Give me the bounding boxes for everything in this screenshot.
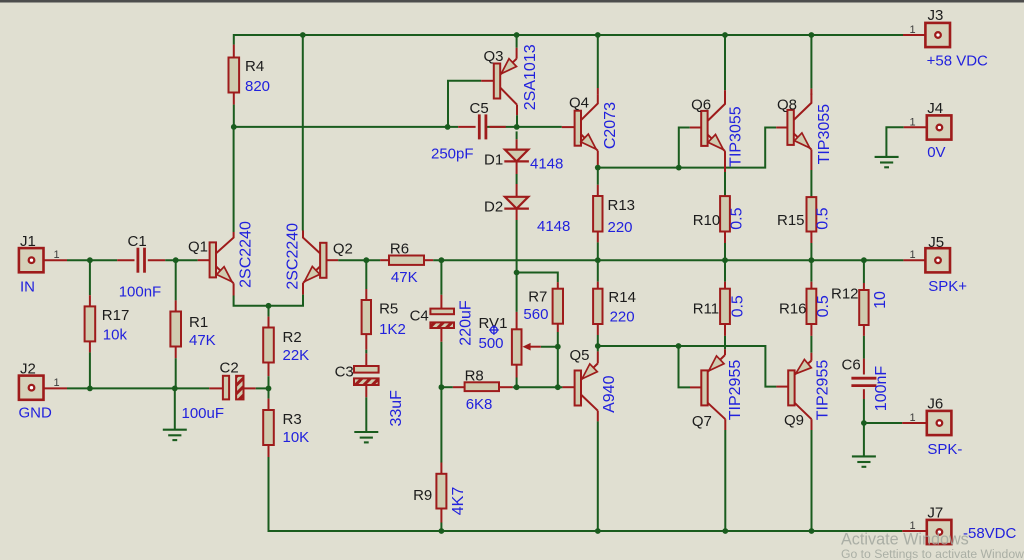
- transistor Q5 emitter arrow: [582, 364, 597, 379]
- svg-text:R3: R3: [283, 411, 302, 428]
- capacitor C3 (electrolytic): [354, 366, 379, 385]
- node D2-R7-RV1 bias junction: [514, 270, 520, 276]
- svg-text:1: 1: [53, 377, 59, 389]
- svg-text:R17: R17: [102, 307, 130, 324]
- transistor Q1 collector diag: [216, 232, 234, 253]
- capacitor C5: [479, 114, 486, 139]
- wire D1 top green: [516, 131, 518, 139]
- wire R4 bottom lead: [233, 93, 235, 105]
- svg-text:6K8: 6K8: [466, 396, 493, 413]
- svg-text:C1: C1: [128, 233, 147, 250]
- wire R10 to output rail: [724, 243, 726, 260]
- wire C3 bottom lead: [365, 386, 367, 398]
- node Q6 base tap junction: [676, 165, 682, 171]
- wire R16 top lead: [810, 282, 812, 289]
- wire R11 bottom green: [724, 336, 726, 349]
- wire R17 top lead: [89, 295, 91, 306]
- wire R9 top lead: [440, 463, 442, 474]
- svg-text:R14: R14: [608, 289, 636, 306]
- node R15-R16 output junction: [809, 257, 815, 263]
- resistor R6: [389, 256, 424, 265]
- wire Q4 emitter lead: [597, 151, 599, 168]
- node Q5 collector rail junction: [595, 528, 601, 534]
- wire Q5 emitter green: [597, 346, 599, 351]
- node Q2 collector on top rail: [300, 32, 306, 38]
- node Q7 collector rail junction: [722, 528, 728, 534]
- connector J7: [927, 520, 952, 544]
- node emitter tail junction: [266, 303, 272, 309]
- resistor R10: [720, 196, 730, 231]
- wire J6 node to ground: [863, 423, 865, 456]
- svg-text:2SC2240: 2SC2240: [284, 223, 301, 290]
- wire R5 to C3: [365, 350, 367, 354]
- wire R5 top: [365, 260, 367, 289]
- node J2-R17 ground junction: [87, 386, 93, 392]
- wire Q5 collector green: [597, 421, 599, 531]
- transistor Q6 body: [701, 111, 707, 146]
- transistor Q4 collector diag: [581, 94, 598, 120]
- resistor R9: [436, 474, 446, 509]
- node Q3 base-loop junction: [445, 124, 451, 130]
- svg-text:R8: R8: [465, 367, 484, 384]
- transistor Q8 emitter diag: [794, 134, 812, 150]
- wire Q2 emitter lead: [302, 283, 304, 295]
- wire R12 bottom lead: [863, 325, 865, 336]
- wire R8 to Q5 base: [513, 386, 563, 388]
- svg-text:TIP3055: TIP3055: [728, 106, 745, 167]
- wire R1 junction to ground: [174, 388, 176, 429]
- node Q7 base tap junction: [676, 343, 682, 349]
- wire RV1 top green: [516, 273, 518, 312]
- potentiometer RV1 wiper arrow: [523, 343, 531, 351]
- potentiometer RV1 crosshair marker: [489, 325, 499, 335]
- potentiometer RV1 body: [512, 329, 522, 364]
- svg-text:A940: A940: [601, 375, 618, 412]
- transistor Q5 body: [575, 371, 581, 406]
- svg-text:R4: R4: [245, 58, 264, 75]
- wire J5 pin: [903, 259, 925, 261]
- wire driver line: [598, 128, 776, 168]
- wire Q6 emitter lead: [724, 151, 726, 172]
- wire Q3 emitter top green: [516, 35, 518, 48]
- wire R17 bottom: [89, 352, 91, 388]
- transistor Q7 emitter diag: [708, 355, 725, 372]
- node R5 on base line: [363, 257, 369, 263]
- node R4 bottom junction: [231, 124, 237, 130]
- resistor R17: [85, 306, 96, 341]
- wire R3 to bottom rail: [269, 457, 903, 531]
- wire J1 pin: [35, 259, 67, 261]
- wire J2 to R17: [67, 387, 209, 389]
- transistor Q4 emitter arrow: [581, 134, 596, 149]
- wire Q9 emitter lead: [810, 353, 812, 361]
- wire R16 top green: [810, 260, 812, 282]
- resistor R8: [465, 382, 499, 391]
- node R8 left junction: [439, 384, 445, 390]
- wire J2 pin: [35, 387, 67, 389]
- wire Q3 collector green: [516, 115, 518, 127]
- capacitor C2 (electrolytic): [223, 376, 244, 400]
- transistor Q1 emitter diag: [216, 266, 234, 283]
- wire Q8 base stub: [776, 127, 787, 129]
- svg-text:220uF: 220uF: [458, 300, 475, 346]
- svg-text:22K: 22K: [283, 347, 310, 364]
- node R10-R11 output junction: [722, 257, 728, 263]
- svg-text:D1: D1: [484, 151, 503, 168]
- node RV1 bottom junction: [514, 384, 520, 390]
- svg-text:R6: R6: [390, 241, 409, 258]
- wire Q7 collector green: [724, 430, 726, 531]
- svg-text:R1: R1: [189, 314, 208, 331]
- wire R6 lead right: [424, 259, 433, 261]
- capacitor C4 (electrolytic): [430, 309, 454, 328]
- node R6-C4 junction: [439, 257, 445, 263]
- node R1 ground junction: [172, 386, 178, 392]
- svg-text:R2: R2: [283, 329, 302, 346]
- wire R10 bottom lead: [724, 232, 726, 244]
- node Q4 emitter drive junction: [595, 165, 601, 171]
- wire R13 top green: [597, 168, 599, 185]
- transistor Q1 emitter arrow: [217, 267, 232, 282]
- transistor Q6 emitter arrow: [708, 135, 723, 150]
- svg-text:Q9: Q9: [784, 412, 804, 429]
- capacitor C1: [138, 248, 145, 273]
- node C5-Q3-D1 junction: [514, 124, 520, 130]
- capacitor C6: [851, 378, 876, 385]
- wire R7 to wiper node: [557, 332, 559, 387]
- svg-text:Q1: Q1: [188, 239, 208, 256]
- svg-text:Activate Windows: Activate Windows: [841, 531, 969, 549]
- transistor Q6 collector diag: [708, 95, 725, 121]
- wire Q4 collector lead: [597, 88, 599, 94]
- wire J7 pin: [902, 530, 927, 532]
- svg-text:0.5: 0.5: [815, 295, 832, 317]
- transistor Q8 body: [787, 110, 793, 145]
- wire wiper lead: [529, 346, 541, 348]
- wire Q5 emitter lead: [597, 351, 599, 363]
- wire C6 bottom lead: [863, 389, 865, 399]
- svg-text:Q3: Q3: [484, 48, 504, 65]
- wire R14 top green: [597, 260, 599, 282]
- svg-text:500: 500: [479, 335, 504, 352]
- wire J6 pin: [902, 422, 927, 424]
- wire bus from R4 to C5: [234, 126, 458, 128]
- svg-text:33uF: 33uF: [388, 390, 405, 427]
- svg-text:100nF: 100nF: [119, 284, 162, 301]
- wire bus C5 to Q4 base: [487, 126, 562, 128]
- svg-text:100uF: 100uF: [182, 405, 225, 422]
- wire D1-D2 link: [516, 161, 518, 196]
- node Q4 collector on top rail: [595, 32, 601, 38]
- transistor Q8 collector diag: [794, 94, 812, 120]
- wire Q6 base tap: [679, 128, 690, 168]
- svg-text:D2: D2: [484, 199, 503, 216]
- wire R15 to output rail: [810, 243, 812, 260]
- node Q8 collector on top rail: [809, 32, 815, 38]
- wire R14 bottom lead: [597, 324, 599, 335]
- resistor R15: [807, 197, 817, 231]
- wire R17 bottom lead: [89, 341, 91, 352]
- wire Q1 emitter to tail node: [234, 296, 269, 306]
- transistor Q2 body: [320, 243, 326, 278]
- diode D1: [504, 150, 529, 162]
- wire R3 top lead: [268, 399, 270, 410]
- node R14-Q5 emitter junction: [595, 343, 601, 349]
- wire C1 lead right: [148, 259, 165, 261]
- node R9 bottom rail junction: [439, 528, 445, 534]
- wire R7 bottom lead: [557, 324, 559, 332]
- wire R14 top lead: [597, 282, 599, 289]
- transistor Q5 emitter diag: [581, 363, 598, 379]
- wire C5 lead right: [490, 126, 506, 128]
- wire R10 top green: [724, 172, 726, 196]
- svg-text:R10: R10: [693, 212, 721, 229]
- wire R5 bottom lead: [365, 334, 367, 350]
- wire C6 to J6 node: [863, 399, 865, 423]
- wire R7 top lead: [557, 282, 559, 289]
- svg-text:C6: C6: [842, 357, 861, 374]
- wire Q7 base tap: [679, 346, 691, 387]
- wire R4 top lead: [233, 45, 235, 58]
- wire Q2 emitter to tail node: [269, 295, 304, 306]
- wire R8 left green: [441, 386, 452, 388]
- svg-text:C3: C3: [335, 363, 354, 380]
- ground under C3: [354, 432, 378, 442]
- wire Q8 collector lead: [810, 89, 812, 95]
- transistor Q9 emitter arrow: [796, 359, 812, 373]
- resistor R1: [170, 312, 181, 347]
- node C1-R1 junction: [173, 257, 179, 263]
- connector J5: [925, 248, 950, 272]
- svg-text:GND: GND: [19, 404, 53, 421]
- wire Q8 emitter lead: [810, 150, 812, 171]
- wire RV1 bottom lead: [516, 365, 518, 378]
- svg-text:220: 220: [610, 309, 635, 326]
- wire Q7 emitter lead: [724, 349, 726, 355]
- resistor R11: [720, 289, 730, 324]
- wire Q4 collector green: [597, 35, 599, 88]
- wire R17 top: [89, 260, 91, 295]
- wire Q6 collector lead: [724, 90, 726, 96]
- wire R15 bottom lead: [810, 232, 812, 244]
- ground at J4: [875, 157, 899, 167]
- transistor Q1 body: [210, 242, 216, 277]
- resistor R4: [229, 58, 240, 93]
- node R7-Q5 base junction: [555, 384, 561, 390]
- svg-text:1K2: 1K2: [379, 321, 406, 338]
- wire R12 top lead: [863, 283, 865, 290]
- wire Q5 base stub: [562, 386, 574, 388]
- svg-text:Q6: Q6: [691, 96, 711, 113]
- svg-text:R16: R16: [779, 301, 807, 318]
- svg-text:R12: R12: [831, 286, 859, 303]
- svg-text:0.5: 0.5: [729, 295, 746, 317]
- wire R2 top lead: [268, 317, 270, 328]
- svg-text:1: 1: [53, 249, 59, 261]
- wire Q3 emitter lead: [516, 48, 518, 59]
- wire Q6 collector green: [724, 35, 726, 90]
- wire R1 top: [175, 260, 177, 300]
- resistor R5: [362, 300, 371, 334]
- svg-text:1: 1: [909, 412, 915, 424]
- wire RV1 top lead: [516, 312, 518, 329]
- wire J4 ground link: [886, 127, 903, 156]
- svg-text:C2: C2: [220, 359, 239, 376]
- svg-text:J4: J4: [927, 100, 943, 117]
- resistor R14: [593, 289, 602, 324]
- node C2-R2-R3 junction: [266, 386, 272, 392]
- connector J3: [925, 23, 950, 47]
- wire wiper green: [541, 346, 558, 348]
- transistor Q2 emitter diag: [303, 266, 320, 283]
- wire Q3 base stub: [481, 80, 494, 82]
- wire R8 lead right: [499, 386, 513, 388]
- transistor Q2 collector diag: [303, 231, 320, 254]
- svg-text:100nF: 100nF: [873, 366, 890, 412]
- svg-text:R9: R9: [413, 487, 432, 504]
- svg-text:47K: 47K: [391, 269, 418, 286]
- svg-text:R5: R5: [379, 301, 398, 318]
- wire C4 bottom green: [440, 342, 442, 387]
- wire R12 to C6: [863, 336, 865, 359]
- svg-text:Q4: Q4: [569, 95, 589, 112]
- wire Q3 base loop: [448, 81, 481, 127]
- wire R4 bottom green: [233, 105, 235, 127]
- wire J4 pin: [904, 126, 935, 128]
- svg-text:C4: C4: [410, 307, 429, 324]
- wire C5 lead left: [458, 126, 475, 128]
- wire R1 bottom lead: [175, 347, 177, 358]
- transistor Q4 body: [575, 111, 581, 146]
- wire R13 to output rail: [597, 242, 599, 260]
- wire Q7 collector lead: [724, 419, 726, 430]
- svg-text:SPK+: SPK+: [928, 278, 967, 295]
- svg-text:R7: R7: [528, 288, 547, 305]
- transistor Q3 collector diag: [500, 88, 517, 105]
- transistor Q7 body: [701, 370, 707, 405]
- wire Q1 emitter lead: [233, 283, 235, 295]
- connector J1: [19, 248, 44, 272]
- wire R8 lead left: [453, 386, 465, 388]
- svg-text:IN: IN: [20, 279, 35, 296]
- connector J4: [927, 115, 952, 139]
- transistor Q7 emitter arrow: [709, 356, 724, 371]
- transistor Q4 emitter diag: [581, 134, 598, 150]
- wire tail to R2: [268, 306, 270, 317]
- svg-text:J1: J1: [20, 233, 36, 250]
- resistor R7: [553, 289, 563, 324]
- svg-text:C2073: C2073: [602, 102, 619, 149]
- svg-text:Q7: Q7: [692, 413, 712, 430]
- svg-text:2SA1013: 2SA1013: [522, 44, 539, 110]
- wire R11 top green: [724, 260, 726, 282]
- svg-text:J3: J3: [928, 7, 944, 24]
- svg-text:J6: J6: [927, 395, 943, 412]
- resistor R3: [263, 410, 274, 445]
- wire R3 bottom lead: [268, 445, 270, 457]
- transistor Q8 emitter arrow: [794, 133, 809, 148]
- wire D1-D2 green: [516, 174, 518, 184]
- wire R2 bottom lead: [268, 363, 270, 376]
- wire R12 top green: [863, 260, 865, 283]
- wire Q3 collector lead: [516, 105, 518, 116]
- wire R11 bottom lead: [724, 324, 726, 336]
- svg-text:1: 1: [909, 249, 915, 261]
- svg-text:1: 1: [909, 116, 915, 128]
- diode D2: [504, 197, 529, 209]
- svg-text:0V: 0V: [927, 144, 945, 161]
- wire Q4 base stub: [562, 126, 575, 128]
- wire R2 to C2 node: [268, 376, 270, 388]
- wire R16 bottom green: [810, 336, 812, 353]
- svg-text:0.5: 0.5: [814, 207, 831, 229]
- resistor R16: [807, 289, 817, 324]
- wire R16 bottom lead: [810, 324, 812, 336]
- svg-text:J2: J2: [20, 361, 36, 378]
- svg-text:R15: R15: [777, 212, 805, 229]
- wire R5 top lead: [365, 289, 367, 300]
- transistor Q6 emitter diag: [708, 135, 725, 152]
- svg-text:R11: R11: [693, 301, 719, 318]
- wire Q7 base stub: [690, 386, 701, 388]
- wire Q8 collector green: [810, 35, 812, 89]
- wire Q1 collector riser: [233, 127, 235, 232]
- svg-text:250pF: 250pF: [431, 146, 474, 163]
- resistor R12: [859, 290, 868, 325]
- wire RV1 bottom green: [516, 378, 518, 388]
- wire J1 to C1: [67, 259, 117, 261]
- transistor Q3 emitter diag: [500, 59, 516, 75]
- svg-text:10K: 10K: [283, 429, 310, 446]
- transistor Q9 collector diag: [795, 403, 812, 419]
- transistor Q5 collector diag: [581, 395, 598, 411]
- svg-text:R13: R13: [608, 197, 636, 214]
- resistor R13: [593, 196, 602, 232]
- wire R6 to output rail: [433, 259, 903, 261]
- wire R9 bottom lead: [440, 509, 442, 523]
- wire D1 top lead: [516, 139, 518, 149]
- svg-text:4148: 4148: [537, 218, 570, 235]
- svg-text:Q8: Q8: [777, 96, 797, 113]
- wire Q5 collector lead: [597, 411, 599, 422]
- wire R11 top lead: [724, 282, 726, 289]
- transistor Q3 emitter arrow: [501, 59, 516, 74]
- svg-text:J7: J7: [927, 504, 943, 521]
- svg-text:Q2: Q2: [333, 241, 353, 258]
- wire R14 to drive node: [597, 335, 599, 346]
- svg-text:-58VDC: -58VDC: [963, 525, 1017, 542]
- wire Q9 base stub: [776, 386, 788, 388]
- svg-text:1: 1: [909, 24, 915, 36]
- wire pnp base rail: [598, 346, 777, 387]
- wire C3 top lead: [365, 353, 367, 366]
- wire R9 bottom green: [440, 523, 442, 532]
- transistor Q3 body: [494, 64, 500, 99]
- svg-text:10: 10: [872, 291, 889, 309]
- svg-text:RV1: RV1: [479, 315, 508, 332]
- node Q9 collector rail junction: [809, 528, 815, 534]
- wire C6 top lead: [863, 359, 865, 375]
- svg-text:2SC2240: 2SC2240: [237, 221, 254, 288]
- svg-text:+58 VDC: +58 VDC: [927, 52, 988, 69]
- wire J6 node to pin: [864, 422, 902, 424]
- wire Q2 collector riser: [302, 35, 304, 231]
- connector J2: [19, 376, 44, 400]
- svg-text:TIP2955: TIP2955: [815, 360, 832, 421]
- wire R13 top lead: [597, 185, 599, 196]
- ground under R1 node: [163, 430, 187, 440]
- node Q3 emitter on top rail: [514, 32, 520, 38]
